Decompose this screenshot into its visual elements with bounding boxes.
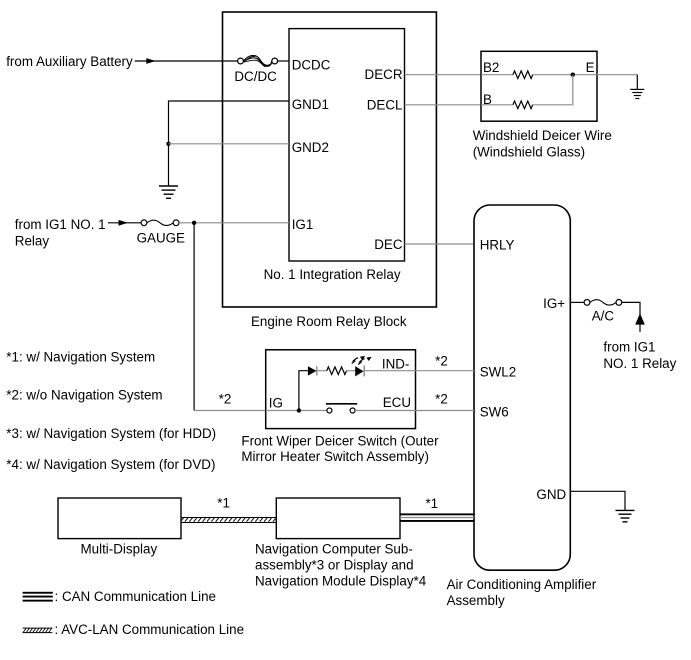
svg-text:*4: w/ Navigation System (for: *4: w/ Navigation System (for DVD) [6,457,215,472]
svg-text:DECL: DECL [367,97,403,112]
fuse DC/DC [234,55,277,83]
arrow: from IG1 NO. 1 relay feed [635,313,645,324]
wire: B2 to resistor [481,74,513,76]
LED: indicator [352,356,372,377]
arrow: auxiliary battery feed [146,58,155,64]
block: Navigation Computer [255,498,427,589]
svg-text:*1: *1 [217,496,230,511]
wire: ground drop [636,75,638,90]
wire: GND1 to ground [169,101,290,186]
svg-text:DCDC: DCDC [292,57,331,72]
wire: junction down to wiper switch IG [193,223,195,411]
ground: windshield deicer ground [630,89,644,98]
wire: node E to ground [575,74,637,76]
svg-text:*2: w/o Navigation System: *2: w/o Navigation System [6,388,162,403]
switch: wiper deicer switch [326,404,357,413]
wire: to wiper switch IG pin [194,410,266,412]
svg-text:Mirror Heater Switch Assembly): Mirror Heater Switch Assembly) [241,449,429,464]
svg-text:from IG1: from IG1 [603,340,655,355]
svg-text:IG+: IG+ [543,296,565,311]
wire: resistor to LED [346,370,355,372]
wire: AVC-LAN communication line [181,518,276,523]
svg-text:Navigation Computer Sub-: Navigation Computer Sub- [255,542,413,557]
svg-text:GND: GND [536,487,566,502]
svg-text:GND2: GND2 [292,140,329,155]
wire: branch up to diode [299,371,308,411]
wire: fuse A/C to IG1 relay feed [622,302,640,332]
wire: GND2 to junction [169,143,290,145]
svg-text:Relay: Relay [15,234,50,249]
svg-text:*3: w/ Navigation System (for: *3: w/ Navigation System (for HDD) [6,426,216,441]
node: IG1 branch junction [192,221,196,225]
wire: auxiliary battery feed [135,60,238,62]
svg-text:DC/DC: DC/DC [234,69,277,84]
diode D1 [308,366,317,375]
wire: GND to ground [570,491,625,510]
svg-text:SW6: SW6 [480,404,509,419]
wire: CAN communication line [400,513,474,522]
svg-text:GND1: GND1 [292,97,329,112]
svg-text:Front Wiper Deicer Switch (Out: Front Wiper Deicer Switch (Outer [241,434,439,449]
wire: fuse DC/DC to pin DCDC [278,60,289,62]
svg-text:No. 1 Integration Relay: No. 1 Integration Relay [264,267,401,282]
svg-text:IND-: IND- [382,356,410,371]
resistor: indicator lamp resistor [327,367,347,375]
svg-text:B2: B2 [483,60,499,75]
svg-text:(Windshield Glass): (Windshield Glass) [473,144,585,159]
resistor: deicer wire B [513,101,533,109]
svg-text:*2: *2 [435,353,448,368]
ground: relay block ground [159,186,178,198]
svg-text:SWL2: SWL2 [480,364,516,379]
block: Engine Room Relay Block [223,12,437,329]
svg-text:NO. 1 Relay: NO. 1 Relay [603,356,676,371]
svg-text:Windshield Deicer Wire: Windshield Deicer Wire [473,128,612,143]
wire: IG+ to fuse A/C [570,301,584,303]
fuse A/C [584,300,622,324]
svg-text:from Auxiliary Battery: from Auxiliary Battery [6,54,133,69]
block: Multi-Display [58,498,181,557]
wire: DECL to windshield B [405,104,482,106]
wire: B to resistor [481,104,513,106]
wire: LED to SWL2 [363,370,474,372]
svg-text:*1: w/ Navigation System: *1: w/ Navigation System [6,350,155,365]
svg-text:: CAN Communication Line: : CAN Communication Line [55,589,217,604]
fuse GAUGE [137,220,185,246]
svg-text:HRLY: HRLY [480,238,515,253]
resistor: deicer wire B2 [513,71,533,79]
node: switch branch junction [297,408,301,412]
wire: fuse GAUGE to pin IG1 [179,222,289,224]
svg-text:Engine Room Relay Block: Engine Room Relay Block [251,314,407,329]
svg-text:Navigation Module Display*4: Navigation Module Display*4 [255,574,427,589]
wire: DEC to HRLY [405,243,475,245]
block: Air Conditioning Amplifier Assembly [447,205,597,608]
node: ground junction [166,142,170,146]
svg-text:DEC: DEC [374,237,403,252]
wire: IG feed inside switch [266,410,327,412]
wire: diode to resistor [316,370,326,372]
svg-text:: AVC-LAN Communication Line: : AVC-LAN Communication Line [55,622,245,637]
svg-text:Assembly: Assembly [447,593,505,608]
svg-text:IG: IG [269,396,283,411]
relay U1: No. 1 Integration Relay [264,29,405,282]
svg-text:E: E [586,60,595,75]
legend: CAN communication line symbol [23,589,216,604]
svg-text:ECU: ECU [383,395,411,410]
legend: AVC-LAN communication line symbol [23,622,244,637]
wire: DECR to windshield B2 [405,74,482,76]
svg-text:GAUGE: GAUGE [137,231,185,246]
block: Front Wiper Deicer Switch [241,350,439,464]
wire: switch to SW6 [355,410,474,412]
ground: A/C amplifier ground [616,510,635,521]
wire: resistor B up to node E [533,75,573,105]
svg-text:Air Conditioning Amplifier: Air Conditioning Amplifier [447,577,597,592]
wire: IG1 relay feed [108,222,141,224]
svg-text:*2: *2 [435,392,448,407]
arrow: IG1 relay feed [119,220,128,226]
svg-text:IG1: IG1 [292,217,314,232]
block: Windshield Deicer Wire [473,51,612,159]
svg-text:*1: *1 [425,496,438,511]
svg-text:from IG1 NO. 1: from IG1 NO. 1 [15,217,106,232]
node: E junction [571,73,575,77]
svg-text:Multi-Display: Multi-Display [81,542,158,557]
svg-text:DECR: DECR [365,67,403,82]
wire: resistor to node E [533,74,571,76]
svg-text:A/C: A/C [592,309,615,324]
svg-text:*2: *2 [219,392,232,407]
svg-text:assembly*3 or Display and: assembly*3 or Display and [255,558,414,573]
